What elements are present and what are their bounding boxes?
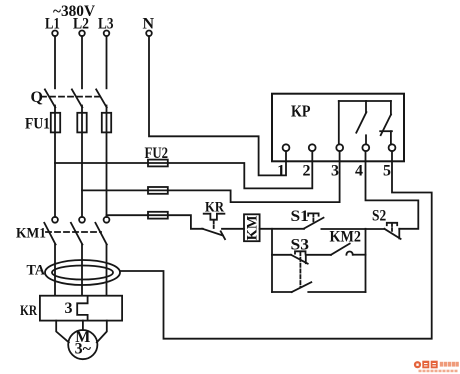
svg-text:KM2: KM2	[330, 229, 362, 246]
svg-text:1: 1	[277, 163, 285, 180]
svg-text:3~: 3~	[75, 341, 92, 358]
svg-text:FU1: FU1	[25, 116, 50, 133]
svg-text:4: 4	[355, 163, 363, 180]
svg-text:3: 3	[65, 300, 73, 317]
svg-text:L3: L3	[98, 16, 114, 33]
svg-text:S2: S2	[372, 207, 386, 224]
svg-text:KP: KP	[291, 102, 311, 121]
svg-text:KR: KR	[20, 303, 37, 319]
svg-text:FU2: FU2	[145, 145, 169, 162]
svg-text:2: 2	[303, 163, 311, 180]
svg-text:3: 3	[331, 163, 339, 180]
svg-text:S3: S3	[291, 236, 310, 253]
svg-text:TA: TA	[27, 263, 46, 279]
svg-text:KR: KR	[205, 200, 224, 216]
svg-text:L2: L2	[73, 16, 89, 33]
svg-text:KM1: KM1	[16, 226, 46, 242]
svg-text:KM: KM	[244, 215, 260, 240]
svg-text:5: 5	[383, 163, 391, 180]
svg-text:S1: S1	[291, 208, 309, 225]
svg-text:N: N	[143, 16, 155, 33]
svg-text:Q: Q	[31, 89, 43, 106]
svg-text:L1: L1	[45, 16, 60, 33]
